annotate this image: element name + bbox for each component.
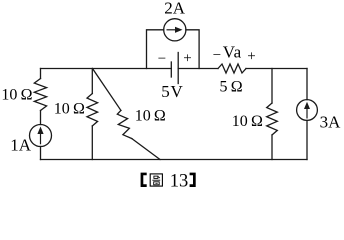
wire diagonal branch upper xyxy=(93,69,121,111)
svg-text:−: − xyxy=(213,48,221,64)
resistor R1 10-ohm left zigzag xyxy=(34,79,46,111)
svg-text:+: + xyxy=(247,48,255,64)
battery V1 plus plate (long) xyxy=(177,53,179,84)
wire battery to 5-ohm resistor xyxy=(178,68,218,70)
svg-text:10 Ω: 10 Ω xyxy=(1,86,32,103)
svg-text:Va: Va xyxy=(223,42,242,61)
svg-text:2A: 2A xyxy=(164,0,186,18)
wire right 10-ohm branch lower xyxy=(271,135,273,160)
wire middle branch upper xyxy=(91,69,93,94)
current source I2 2A circle xyxy=(164,19,186,41)
wire left edge lower segment xyxy=(40,147,42,160)
wire left edge upper segment xyxy=(40,69,42,79)
resistor R3 10-ohm diagonal zigzag xyxy=(117,110,132,138)
battery V1 minus plate (short) xyxy=(170,62,172,77)
wire left edge between R1 and 1A source xyxy=(40,111,42,125)
svg-text:−: − xyxy=(158,51,166,67)
current source I3 3A circle xyxy=(297,100,318,121)
svg-text:13: 13 xyxy=(170,171,189,191)
caption bracket left xyxy=(141,173,147,187)
wire bottom xyxy=(41,159,308,161)
caption bracket right xyxy=(190,173,196,187)
svg-text:10 Ω: 10 Ω xyxy=(232,113,263,130)
svg-text:3A: 3A xyxy=(320,112,342,131)
current source I1 arrow (up) xyxy=(37,127,43,145)
wire right edge lower segment xyxy=(306,120,308,159)
svg-text:5 Ω: 5 Ω xyxy=(220,79,243,96)
svg-text:1A: 1A xyxy=(10,135,32,154)
svg-text:+: + xyxy=(183,51,191,67)
svg-text:10 Ω: 10 Ω xyxy=(54,101,85,118)
wire right edge upper segment xyxy=(306,69,308,100)
current source I2 arrow (right) xyxy=(167,27,183,33)
current source I3 arrow (up) xyxy=(304,102,310,119)
resistor R2 10-ohm middle zigzag xyxy=(87,94,98,127)
wire 5-ohm to top-right corner xyxy=(246,68,307,70)
svg-text:5V: 5V xyxy=(161,82,183,101)
wire 2A loop right leg xyxy=(186,30,199,69)
wire top-left segment (left corner to battery minus plate) xyxy=(41,68,172,70)
wire middle branch lower xyxy=(91,126,93,160)
current source I1 1A circle xyxy=(30,125,52,147)
wire diagonal branch lower xyxy=(132,139,160,160)
resistor R5 10-ohm right zigzag xyxy=(267,103,278,135)
svg-text:10 Ω: 10 Ω xyxy=(135,108,166,125)
caption glyph tu (figure) xyxy=(150,174,162,186)
resistor R4 5-ohm zigzag xyxy=(218,64,246,73)
wire right 10-ohm branch upper xyxy=(271,69,273,104)
wire 2A loop left leg xyxy=(147,30,164,69)
